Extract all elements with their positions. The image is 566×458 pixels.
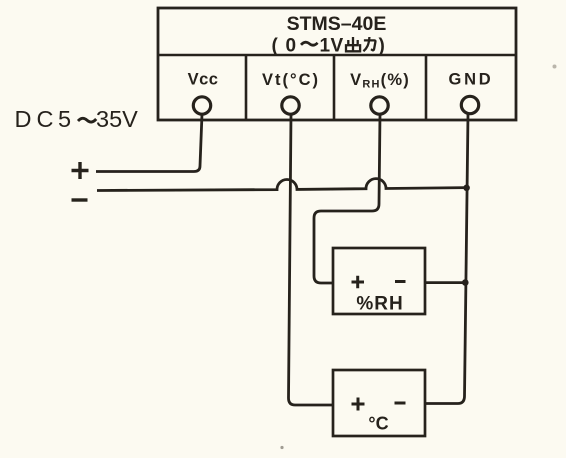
label DC5~35V bbox=[15, 106, 139, 132]
minus sign %RH bbox=[395, 280, 406, 283]
wire %RH box to GND line bbox=[425, 281, 466, 284]
meter %RH box bbox=[333, 248, 425, 314]
plus sign supply bbox=[72, 162, 89, 179]
svg-text:C: C bbox=[37, 106, 54, 132]
divider VRH|GND bbox=[425, 55, 428, 120]
minus sign degC bbox=[395, 402, 406, 405]
junction %RH/GND bbox=[462, 279, 469, 286]
label (0~1V shutsuryoku) bbox=[272, 35, 385, 56]
kanji shutsu bbox=[346, 37, 360, 51]
plus sign %RH bbox=[352, 276, 365, 289]
wire VRH down-left-down to %RH box bbox=[314, 114, 380, 283]
svg-text:STMS–40E: STMS–40E bbox=[287, 13, 387, 35]
terminal VRH circle bbox=[371, 97, 388, 114]
junction minus/GND bbox=[463, 185, 470, 192]
wire Vcc to + supply bbox=[96, 114, 202, 172]
svg-text:1: 1 bbox=[320, 35, 331, 56]
divider title/terminals bbox=[158, 54, 516, 57]
svg-text:GND: GND bbox=[448, 71, 493, 89]
terminal Vt circle bbox=[282, 97, 299, 114]
module STMS-40E outer box bbox=[158, 8, 516, 120]
fullwidth tilde bbox=[301, 42, 318, 45]
svg-text:D: D bbox=[15, 106, 32, 132]
minus sign supply bbox=[72, 198, 88, 201]
svg-text:(: ( bbox=[272, 35, 279, 56]
svg-text:Vt(°C): Vt(°C) bbox=[262, 71, 320, 89]
terminal Vcc circle bbox=[193, 97, 210, 114]
svg-text:35V: 35V bbox=[96, 106, 138, 132]
divider Vcc|Vt bbox=[245, 55, 248, 120]
svg-text:): ) bbox=[379, 35, 385, 56]
wire - supply line with hops bbox=[97, 179, 467, 191]
svg-text:5: 5 bbox=[58, 106, 71, 132]
svg-text:%RH: %RH bbox=[356, 294, 403, 315]
plus sign degC bbox=[352, 398, 365, 411]
meter degC box bbox=[333, 370, 425, 436]
wire GND down to degC box bbox=[425, 114, 468, 404]
divider Vt|VRH bbox=[333, 55, 336, 120]
svg-text:V: V bbox=[331, 35, 344, 56]
terminal GND circle bbox=[461, 96, 478, 113]
svg-text:0: 0 bbox=[286, 35, 297, 56]
svg-text:VRH(%): VRH(%) bbox=[350, 71, 410, 91]
kanji ryoku bbox=[363, 37, 375, 51]
svg-text:°C: °C bbox=[368, 414, 388, 434]
scan artifacts bbox=[553, 65, 557, 69]
svg-text:Vcc: Vcc bbox=[188, 71, 219, 89]
wire Vt down to degC box bbox=[289, 114, 334, 405]
